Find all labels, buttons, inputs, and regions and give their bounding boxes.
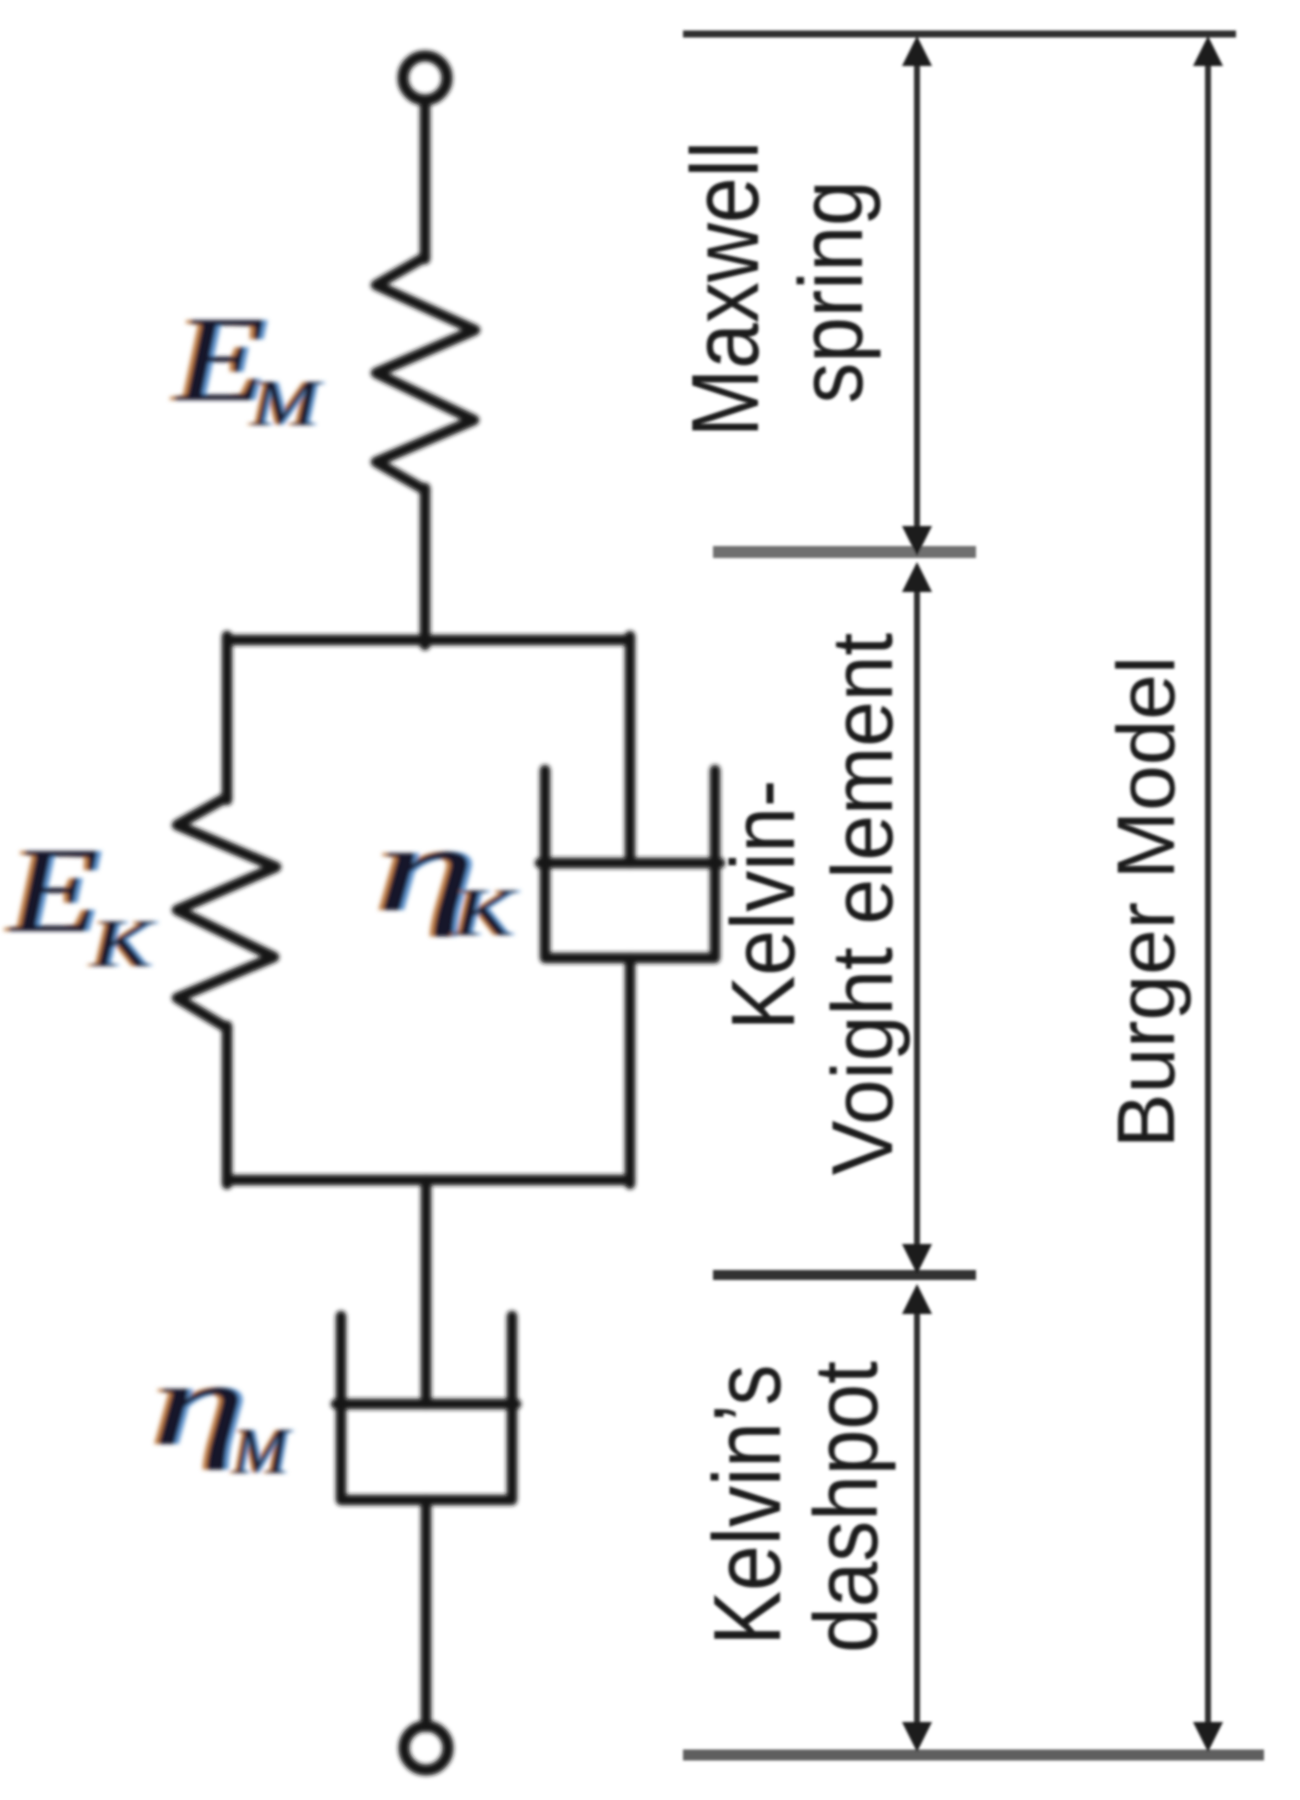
dimension line Burger Model — [1205, 50, 1211, 1744]
box left edge lower — [222, 1026, 233, 1184]
bottom extension line — [683, 1750, 1264, 1761]
svg-text:dashpot: dashpot — [796, 1361, 896, 1653]
wire to bottom terminal — [421, 1500, 432, 1727]
svg-text:K: K — [91, 907, 155, 982]
svg-text:Maxwell: Maxwell — [671, 141, 779, 437]
Kelvin-Voight box top — [227, 635, 630, 646]
wire spring to box — [420, 488, 431, 645]
svg-text:M: M — [232, 1415, 292, 1488]
box left edge upper — [222, 636, 233, 800]
dashpot K piston plate — [540, 858, 720, 869]
tick divider 1 — [713, 546, 976, 558]
dashpot M piston plate — [336, 1399, 516, 1410]
dimension line Maxwell spring — [914, 50, 920, 548]
dashpot M cup — [341, 1316, 512, 1500]
svg-text:Voight element: Voight element — [814, 633, 910, 1175]
spring EK — [177, 797, 276, 1028]
label etaK — [371, 800, 480, 937]
svg-text:Kelvin’s: Kelvin’s — [693, 1364, 801, 1645]
label EK — [3, 823, 104, 958]
tick divider 2 — [713, 1270, 976, 1280]
svg-text:spring: spring — [781, 180, 881, 403]
label EM — [169, 292, 270, 427]
dashpot K cup — [545, 770, 715, 958]
top extension line — [683, 31, 1236, 38]
svg-text:M: M — [251, 366, 323, 439]
svg-text:E: E — [8, 823, 100, 958]
terminal circle top — [403, 56, 447, 100]
terminal circle bottom — [404, 1726, 448, 1770]
box right edge lower — [625, 958, 636, 1184]
svg-text:Kelvin-: Kelvin- — [713, 780, 813, 1031]
label etaM — [147, 1338, 251, 1470]
dimension line Kelvin-Voight element — [914, 574, 920, 1264]
dimension line Kelvin's dashpot — [914, 1294, 920, 1744]
svg-text:Burger Model: Burger Model — [1101, 656, 1192, 1148]
wire top — [420, 100, 431, 259]
wire box to dashpot M — [421, 1180, 432, 1404]
svg-text:K: K — [453, 876, 517, 951]
box right edge upper / dashpot K rod — [625, 636, 636, 863]
Kelvin-Voight box bottom — [227, 1175, 630, 1186]
spring EM (Maxwell spring) — [376, 257, 475, 490]
